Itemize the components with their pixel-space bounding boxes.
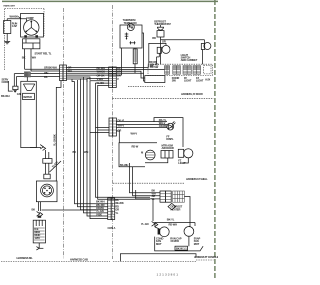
svg-text:MTR ASM: MTR ASM xyxy=(162,144,174,148)
svg-text:WATER: WATER xyxy=(23,95,32,99)
compressor terminal right xyxy=(35,35,38,38)
svg-text:AND CABINET: AND CABINET xyxy=(181,58,198,62)
FF door box outline xyxy=(154,118,183,147)
CN4 right labels xyxy=(115,198,124,215)
svg-text:AUX: AUX xyxy=(205,78,211,82)
air door terminal block xyxy=(161,144,174,158)
compressor terminal left xyxy=(24,35,27,38)
label box BK-W xyxy=(175,246,188,250)
wire lamp down xyxy=(183,158,188,163)
temperature control box xyxy=(120,25,142,48)
svg-text:HARNESS PT CONSOLE: HARNESS PT CONSOLE xyxy=(194,256,218,259)
defrost heater symbol xyxy=(168,203,183,211)
bus row R3 xyxy=(66,71,144,78)
bottom right dashed boundary xyxy=(196,259,214,261)
stub VA VB from top rows xyxy=(90,128,109,133)
svg-text:LIGHT: LIGHT xyxy=(196,79,204,83)
lamp loop wire xyxy=(149,43,166,67)
svg-text:BK: BK xyxy=(117,66,121,70)
wire label WH-BK with arrow xyxy=(10,14,22,18)
vertical trunk wire V1 xyxy=(75,82,108,204)
svg-text:YL-BK: YL-BK xyxy=(97,81,105,85)
wire strip bottom to rows xyxy=(134,64,136,73)
cord strain wire xyxy=(8,81,13,91)
connector CN4 bottom center xyxy=(108,198,115,220)
bus row R2 xyxy=(66,68,164,70)
compressor box xyxy=(21,13,44,37)
CN2 left labels xyxy=(97,66,106,85)
defrost thermostat label xyxy=(154,19,171,26)
connector hatch strip under control xyxy=(133,49,137,64)
band empty connector outline xyxy=(204,66,211,74)
svg-text:CON A: CON A xyxy=(108,226,116,230)
FZ lamp xyxy=(178,149,193,165)
svg-text:HEATER: HEATER xyxy=(171,207,181,211)
wire water valve to chevron connector xyxy=(30,147,41,149)
harness FZ shell boundary xyxy=(113,182,185,184)
wire run cap to compressor xyxy=(7,19,26,21)
svg-text:WH-BK: WH-BK xyxy=(10,14,19,18)
cord ground labels xyxy=(1,92,21,98)
svg-text:CAP: CAP xyxy=(12,24,18,28)
svg-text:HARN. UNIT: HARN. UNIT xyxy=(4,5,16,8)
svg-text:HARNESS ML: HARNESS ML xyxy=(17,256,34,260)
band connector K4 xyxy=(193,66,201,75)
ground at run capacitor xyxy=(4,34,10,44)
door switch labels xyxy=(150,62,159,69)
FF display label xyxy=(166,134,174,141)
bus row R6 turning down xyxy=(66,77,90,80)
svg-text:V-WH: V-WH xyxy=(97,77,104,81)
svg-text:BK-YL: BK-YL xyxy=(167,217,175,221)
vertical trunk wire V4 xyxy=(84,77,108,213)
junction hatch block to water valve xyxy=(24,72,30,77)
door switch dashed boundary xyxy=(128,85,165,87)
svg-text:LIGHT: LIGHT xyxy=(184,79,192,83)
svg-text:HARNESS, FF DOOR: HARNESS, FF DOOR xyxy=(181,93,203,96)
svg-text:TEMP CON: TEMP CON xyxy=(124,21,137,25)
band connector K1 xyxy=(165,66,170,75)
vertical trunk wire V5 xyxy=(87,79,109,217)
bus row R7 turning down xyxy=(66,79,87,82)
relay label xyxy=(35,52,52,56)
svg-text:115V: 115V xyxy=(34,236,40,240)
svg-text:OR: OR xyxy=(162,40,166,44)
harness FF door boundary xyxy=(113,98,214,100)
bottom right labels top xyxy=(152,189,156,201)
air door motor M2 xyxy=(141,150,155,160)
svg-text:BK-W 1-1: BK-W 1-1 xyxy=(176,246,187,250)
vertical trunk wire V6 xyxy=(90,81,109,219)
band connector K2 xyxy=(173,66,181,75)
connector CN3 FF door xyxy=(109,118,125,136)
wire temp control to row R4 xyxy=(142,33,144,73)
svg-text:WH: WH xyxy=(117,70,121,74)
connector CN2 center xyxy=(109,67,117,88)
svg-text:BK: BK xyxy=(32,208,36,212)
svg-text:RD-W: RD-W xyxy=(132,145,139,149)
wires fan box down xyxy=(32,202,41,212)
svg-text:BK-WH: BK-WH xyxy=(97,66,106,70)
bus wire row from compressor area 1 xyxy=(25,68,60,70)
compressor motor M1 xyxy=(24,20,39,35)
condenser fan motor M3 xyxy=(155,223,195,237)
CN1 right labels xyxy=(68,66,72,73)
svg-text:BK: BK xyxy=(22,56,26,60)
harness boundary dash-dot vertical left xyxy=(62,8,64,259)
svg-text:15 MFD: 15 MFD xyxy=(170,239,179,243)
svg-text:SW: SW xyxy=(172,79,177,83)
svg-text:YL: YL xyxy=(115,211,119,215)
trunk labels xyxy=(73,150,89,154)
icemaker bottom wire with arrow xyxy=(36,243,43,250)
wire to CN5 row3 xyxy=(136,190,160,199)
defrost thermostat body xyxy=(157,31,164,37)
defrost thermostat symbol xyxy=(157,25,164,30)
control internal element 1 xyxy=(125,33,129,40)
svg-text:THERMOSTAT: THERMOSTAT xyxy=(154,22,171,26)
svg-text:OR-BK: OR-BK xyxy=(159,124,167,128)
display feed vertical VA xyxy=(96,83,151,197)
bus row R5 xyxy=(66,74,121,76)
icemaker box xyxy=(33,220,45,243)
svg-text:WH: WH xyxy=(44,71,48,75)
CN1 left labels xyxy=(44,66,57,79)
evaporator fan motor M4 xyxy=(184,227,194,237)
wire control box to strip xyxy=(134,48,136,49)
svg-text:OR-BK: OR-BK xyxy=(97,73,105,77)
svg-text:V-BK: V-BK xyxy=(96,212,102,216)
door switch box xyxy=(145,76,165,83)
FF cabinet lamp left xyxy=(157,45,171,64)
svg-text:HARNESS CAB: HARNESS CAB xyxy=(70,258,88,262)
FF display LED U1 xyxy=(167,121,175,130)
wires cap to plug block xyxy=(46,163,49,174)
vertical trunk wire V3 xyxy=(81,79,108,210)
wire CN4 to icemaker xyxy=(42,209,97,211)
chevron connector below fan xyxy=(37,211,43,217)
wire CN1 bottom to freezer fan xyxy=(56,81,61,181)
start relay and overload box xyxy=(23,39,40,49)
svg-text:WH: WH xyxy=(32,56,36,60)
svg-text:RD: RD xyxy=(152,36,156,40)
svg-text:DISPL: DISPL xyxy=(166,137,174,141)
plug block xyxy=(44,174,50,179)
CN2 right labels xyxy=(117,66,121,81)
chevron connector pair xyxy=(40,145,45,151)
wire FZ components down W2 xyxy=(133,167,160,196)
svg-text:BK-WH: BK-WH xyxy=(1,94,10,98)
cabinet lamp right xyxy=(201,43,211,65)
light switch label xyxy=(181,53,198,62)
wire terminal block to left xyxy=(145,158,168,163)
water valve box xyxy=(21,81,37,147)
svg-text:DK-YL: DK-YL xyxy=(118,119,126,123)
fan motor face xyxy=(41,184,54,197)
svg-text:YL-GN: YL-GN xyxy=(141,222,149,226)
svg-text:BK-WH: BK-WH xyxy=(120,163,129,167)
svg-text:WH-V: WH-V xyxy=(131,132,138,136)
top wire over motors xyxy=(155,217,195,226)
ground leader diagonal YL-GN xyxy=(50,160,62,172)
motor labels xyxy=(156,237,201,246)
FF display wires xyxy=(116,121,167,127)
green right border line xyxy=(214,0,216,278)
wire chevron down to motor cap xyxy=(46,150,49,159)
bus wire row from plug xyxy=(14,73,59,75)
svg-text:HARNESS FZ SHELL: HARNESS FZ SHELL xyxy=(186,178,208,181)
svg-text:GN: GN xyxy=(17,92,21,96)
svg-text:YL-GN BK: YL-GN BK xyxy=(53,134,57,146)
stub connecting rows to V1 xyxy=(72,79,75,82)
svg-text:CORD: CORD xyxy=(2,80,9,84)
harness unit dashed boundary xyxy=(5,9,44,71)
under wire condenser to right xyxy=(155,236,203,251)
svg-text:WH: WH xyxy=(84,150,88,154)
green top border line xyxy=(2,0,218,2)
svg-text:START REL TL: START REL TL xyxy=(35,52,52,56)
bottom center dashed boundary xyxy=(113,260,196,262)
svg-text:WH-V: WH-V xyxy=(118,124,125,128)
thermostat sensor circle xyxy=(127,24,134,31)
band lower labels xyxy=(172,76,211,83)
svg-text:WH-BK: WH-BK xyxy=(97,70,106,74)
control internal element 2 xyxy=(130,41,136,44)
wire control left down xyxy=(121,48,123,75)
bus row R4 xyxy=(66,73,144,81)
svg-text:BK: BK xyxy=(73,150,77,154)
air door lower box xyxy=(119,143,157,167)
svg-text:BK: BK xyxy=(44,75,48,79)
svg-text:RD-WH: RD-WH xyxy=(169,222,178,226)
relay output wire WH xyxy=(31,49,36,71)
bus row R1 xyxy=(66,67,148,69)
harness boundary dash-dot vertical center xyxy=(112,5,114,259)
wire bus to water valve xyxy=(26,77,28,81)
svg-text:OR BK-WH: OR BK-WH xyxy=(44,66,57,70)
band left labels xyxy=(149,60,157,68)
bottom left dashed boundary xyxy=(1,260,110,262)
display feed vertical VB xyxy=(98,85,150,199)
water valve label box xyxy=(23,93,35,99)
power cord plug P1 xyxy=(13,74,18,93)
relay output wire BK xyxy=(22,49,26,69)
water valve coil funnel xyxy=(23,84,34,91)
band connector K3 xyxy=(183,66,191,75)
bus wire row 4 xyxy=(17,75,60,77)
CN4 left labels xyxy=(96,200,105,217)
wire CN3 to air door box xyxy=(116,131,119,143)
svg-text:OR: OR xyxy=(117,73,121,77)
connector band dashed outline xyxy=(148,64,212,75)
capacitor block xyxy=(43,159,52,164)
bus wire row from compressor area 2 xyxy=(31,70,60,72)
FF display wire labels xyxy=(131,118,167,136)
temperature control label xyxy=(123,18,137,25)
chevron connector bottom right xyxy=(152,221,158,227)
connector CN1 on unit harness boundary xyxy=(60,65,67,81)
svg-text:MOT: MOT xyxy=(156,242,162,246)
power cord label xyxy=(2,77,9,84)
console top line xyxy=(120,254,196,261)
svg-text:MOT: MOT xyxy=(194,242,200,246)
evap fan motor box xyxy=(36,181,57,202)
vertical trunk wire V2 xyxy=(78,80,108,207)
wire thermostat down and right to FF lamp xyxy=(152,36,204,64)
connector CN5 xyxy=(160,191,184,202)
svg-text:12133801: 12133801 xyxy=(157,272,180,276)
wire CN5 right down xyxy=(184,197,190,227)
wire CN5 left down xyxy=(152,199,154,221)
svg-text:DR SW: DR SW xyxy=(150,65,159,69)
compressor run capacitor C1 xyxy=(4,21,18,34)
wire FZ components down W1 xyxy=(130,163,161,193)
